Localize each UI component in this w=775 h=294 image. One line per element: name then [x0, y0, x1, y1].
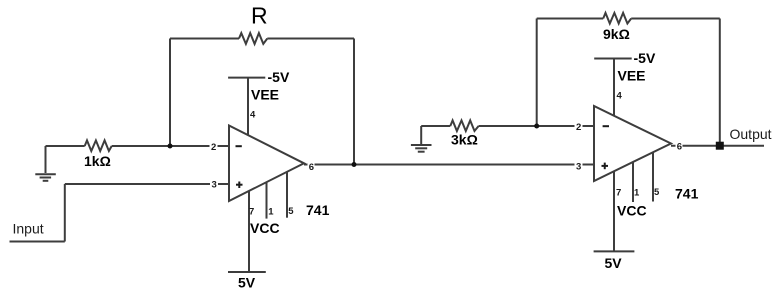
resistor R1 R (feedback)	[239, 33, 267, 44]
wire: U2 pin 1 stub	[632, 162, 634, 202]
svg-text:VCC: VCC	[250, 220, 280, 236]
svg-text:741: 741	[306, 202, 330, 218]
op-amp U2 minus input symbol	[603, 125, 609, 127]
svg-text:Output: Output	[730, 126, 772, 142]
junction: feedback meets U2 pin 2 wire	[534, 124, 539, 129]
svg-text:4: 4	[250, 110, 256, 121]
svg-text:-5V: -5V	[634, 50, 656, 66]
wire: VEE bar (right stage)	[594, 58, 632, 60]
svg-text:1kΩ: 1kΩ	[84, 153, 111, 169]
pin label U2-2	[575, 122, 583, 133]
wire: input to op-amp U1 pin 3	[65, 183, 229, 185]
svg-text:9kΩ: 9kΩ	[603, 26, 630, 42]
pin label U2-3	[575, 161, 583, 173]
wire: feedback top right segment (U1)	[267, 38, 354, 40]
wire: right ground to resistor R4	[421, 125, 450, 127]
op-amp U1 plus input symbol	[236, 182, 243, 189]
resistor R4 3kΩ	[450, 120, 478, 131]
wire: U1 pin 7 vertical to VCC	[248, 191, 250, 272]
svg-text:741: 741	[675, 186, 699, 202]
pin label U1-6	[308, 162, 315, 173]
wire: U1 output to U2 pin 3	[304, 164, 594, 166]
wire: resistor R4 to op-amp U2 pin 2	[479, 125, 594, 127]
wire: U2 pin 7 vertical to VCC	[613, 171, 615, 251]
wire: VEE bar (left stage)	[228, 77, 265, 79]
svg-text:6: 6	[309, 162, 314, 173]
svg-text:VCC: VCC	[617, 203, 647, 219]
wire: U1 pin 1 stub	[266, 182, 268, 219]
wire: feedback top left segment (U2)	[537, 18, 604, 20]
op-amp U1 (741) triangle	[229, 126, 304, 202]
wire: feedback top left segment (U1)	[170, 38, 239, 40]
svg-text:-5V: -5V	[268, 69, 290, 85]
node: Output terminal square	[716, 142, 724, 150]
svg-text:5: 5	[654, 187, 660, 198]
svg-text:1: 1	[268, 207, 274, 218]
wire: Input vertical riser	[64, 184, 66, 242]
wire: VCC bar (right stage)	[594, 250, 635, 252]
svg-text:7: 7	[616, 187, 621, 198]
junction: U1 output meets feedback vertical	[352, 162, 357, 167]
wire: left ground to resistor R2	[46, 145, 85, 147]
op-amp U2 (741) triangle	[594, 106, 671, 181]
svg-text:3kΩ: 3kΩ	[451, 132, 478, 148]
svg-text:2: 2	[576, 122, 581, 133]
svg-text:2: 2	[211, 142, 216, 153]
wire: feedback right vertical to U1 output	[353, 39, 355, 165]
svg-text:3: 3	[576, 162, 581, 173]
wire: U2 pin 4 vertical	[613, 59, 615, 117]
svg-text:5: 5	[288, 206, 294, 217]
wire: VCC bar (left stage)	[228, 271, 266, 273]
svg-text:7: 7	[249, 207, 254, 218]
ground GND2 (right stage)	[411, 126, 432, 152]
op-amp U1 minus input symbol	[236, 145, 242, 147]
svg-text:R: R	[251, 3, 268, 29]
pin label U2-6	[676, 142, 683, 153]
wire: feedback top right segment (U2)	[631, 18, 720, 20]
wire: resistor R2 to op-amp U1 pin 2	[112, 145, 229, 147]
pin label U1-2	[210, 142, 218, 153]
svg-text:5V: 5V	[605, 255, 623, 271]
wire: U2 output to Output	[671, 145, 764, 147]
svg-text:1: 1	[634, 187, 640, 198]
ground GND1 (left stage)	[35, 146, 56, 181]
svg-text:VEE: VEE	[251, 87, 279, 103]
svg-text:6: 6	[677, 142, 682, 153]
junction: feedback meets U1 pin 2 wire	[168, 144, 173, 149]
wire: feedback left vertical (U1)	[169, 39, 171, 147]
resistor R2 1kΩ	[85, 140, 112, 151]
wire: U1 pin 5 stub	[286, 172, 288, 218]
svg-text:Input: Input	[13, 221, 44, 237]
svg-text:VEE: VEE	[618, 68, 646, 84]
wire: U2 pin 5 stub	[652, 152, 654, 201]
svg-text:5V: 5V	[238, 275, 256, 291]
svg-text:3: 3	[212, 180, 217, 191]
svg-text:4: 4	[617, 91, 623, 102]
op-amp U2 plus input symbol	[602, 163, 609, 170]
wire: Input bottom horizontal	[10, 241, 65, 243]
wire: U1 pin 4 vertical	[247, 78, 249, 135]
resistor R3 9kΩ	[603, 13, 631, 24]
wire: feedback right vertical to output node	[719, 19, 721, 146]
pin label U1-3	[210, 180, 218, 191]
wire: feedback left vertical (U2)	[536, 19, 538, 127]
